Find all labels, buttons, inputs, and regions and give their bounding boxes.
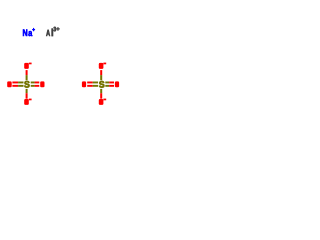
sulfate 2: double bond S=O right, O half top line [109,82,114,84]
sulfate 1: double bond S=O left, O half bottom line [12,85,18,87]
sulfate 2: single bond S-O top, S half [100,75,102,80]
sulfate 1: bottom O minus atom [24,99,29,105]
sulfate 1: double bond S=O left, O half top line [12,82,18,84]
sulfate 2: double bond S=O right, S half top line [105,82,109,84]
sulfate 2: minus charge of bottom O [103,99,106,101]
sulfate 1: double bond S=O right, O half top line [35,82,40,84]
sulfate 1: double bond S=O left, S half bottom line [18,85,23,87]
aluminium cation Al3+ : superscript plus charge [56,27,59,30]
sulfate ion 2 (right): top O minus atom [99,63,104,69]
sodium cation Na+ : letter N [23,29,27,36]
aluminium cation Al3+ : letter A [46,30,50,36]
sulfate 1: double bond S=O right, S half bottom line [31,85,35,87]
sulfate 1: double bond S=O right, O half bottom line [35,85,40,87]
sulfate 2: single bond S-O bottom, S half [100,89,102,93]
sulfate 2: double bond S=O left, S half bottom line [93,85,98,87]
sulfate 1: single bond S-O top, S half [26,75,28,80]
sulfate 2: double bond S=O left, O half top line [87,82,93,84]
sulfate 2: double bond S=O right, S half bottom line [105,85,109,87]
sulfate 2: minus charge of top O [103,63,106,65]
sodium cation Na+ : letter a [28,31,32,36]
sulfate 2: left O atom [82,81,86,87]
aluminium cation Al3+ : letter l [52,29,53,37]
sodium cation Na+ : superscript plus charge [32,28,34,31]
aluminium cation Al3+ : superscript 3 [54,27,57,32]
sulfate 1: single bond S-O bottom, S half [26,89,28,93]
sulfate 2: sulfur atom S [99,81,104,88]
sulfate 2: bottom O minus atom [99,99,104,105]
sulfate 2: single bond S-O bottom, O half [100,93,102,99]
sulfate 1: single bond S-O bottom, O half [26,93,28,99]
sulfate 1: single bond S-O top, O half [26,70,28,75]
sulfate 1: double bond S=O left, S half top line [18,82,23,84]
sulfate 1: minus charge of bottom O [29,99,32,101]
sulfate 1: minus charge of top O [29,63,32,65]
sulfate ion 1 (left): top O minus atom [24,63,29,69]
sulfate 2: right O atom [115,81,119,87]
sulfate 2: single bond S-O top, O half [100,70,102,75]
sulfate 1: sulfur atom S [24,81,29,88]
sulfate 2: double bond S=O left, O half bottom line [87,85,93,87]
sulfate 1: right O atom [40,81,44,87]
sulfate 1: double bond S=O right, S half top line [31,82,35,84]
sulfate 2: double bond S=O right, O half bottom line [109,85,114,87]
sulfate 2: double bond S=O left, S half top line [93,82,98,84]
sulfate 1: left O atom [7,81,12,87]
